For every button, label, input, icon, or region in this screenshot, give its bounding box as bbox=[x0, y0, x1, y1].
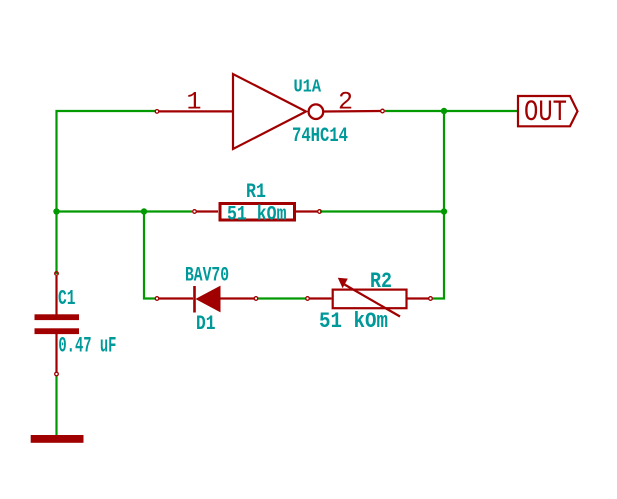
wire bbox=[385, 110, 519, 112]
svg-text:51 kOm: 51 kOm bbox=[319, 309, 388, 334]
wire bbox=[257, 297, 307, 299]
wire bbox=[144, 212, 156, 299]
wire bbox=[56, 210, 192, 212]
svg-text:U1A: U1A bbox=[294, 77, 322, 98]
wire bbox=[55, 376, 57, 438]
wire bbox=[432, 110, 445, 299]
op-amp U1A inverter triangle bbox=[233, 74, 323, 149]
svg-text:OUT: OUT bbox=[524, 95, 567, 129]
svg-text:74HC14: 74HC14 bbox=[292, 125, 348, 148]
diode D1 BAV70 bbox=[155, 286, 258, 313]
node junction bbox=[53, 208, 59, 214]
pin 1 of U1A bbox=[155, 88, 233, 117]
node OUT hierarchical label bbox=[518, 95, 578, 129]
svg-text:2: 2 bbox=[338, 88, 353, 117]
svg-text:1: 1 bbox=[187, 88, 202, 117]
svg-text:0.47 uF: 0.47 uF bbox=[58, 333, 116, 358]
svg-text:C1: C1 bbox=[58, 288, 76, 311]
node junction bbox=[441, 208, 447, 214]
node junction bbox=[141, 208, 147, 214]
svg-text:R2: R2 bbox=[370, 269, 392, 294]
svg-text:51 kOm: 51 kOm bbox=[227, 204, 287, 227]
resistor R1 bbox=[193, 204, 322, 221]
svg-text:R1: R1 bbox=[246, 181, 266, 204]
capacitor C1 bbox=[35, 272, 80, 376]
wire bbox=[57, 111, 157, 274]
node junction bbox=[441, 108, 447, 114]
svg-text:BAV70: BAV70 bbox=[185, 265, 229, 288]
ground bbox=[31, 435, 84, 443]
pin 2 of U1A bbox=[324, 88, 384, 117]
svg-text:D1: D1 bbox=[196, 313, 216, 336]
wire bbox=[320, 210, 444, 212]
potentiometer R2 bbox=[306, 278, 433, 317]
